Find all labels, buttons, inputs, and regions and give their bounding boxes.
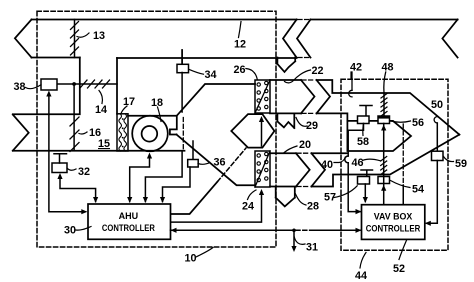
svg-text:44: 44 xyxy=(355,270,367,282)
svg-text:38: 38 xyxy=(14,81,26,93)
svg-text:48: 48 xyxy=(382,62,394,74)
svg-text:12: 12 xyxy=(234,39,246,51)
svg-text:13: 13 xyxy=(93,30,105,42)
svg-text:42: 42 xyxy=(350,62,362,74)
svg-text:CONTROLLER: CONTROLLER xyxy=(102,223,155,233)
svg-text:20: 20 xyxy=(299,139,311,151)
svg-text:26: 26 xyxy=(234,64,246,76)
svg-text:32: 32 xyxy=(78,166,90,178)
svg-text:54: 54 xyxy=(412,184,424,196)
svg-text:24: 24 xyxy=(242,201,254,213)
svg-text:52: 52 xyxy=(393,263,405,275)
svg-text:28: 28 xyxy=(307,201,319,213)
svg-text:29: 29 xyxy=(306,120,318,132)
svg-text:18: 18 xyxy=(151,97,163,109)
svg-text:31: 31 xyxy=(306,242,318,254)
svg-text:10: 10 xyxy=(185,253,197,265)
svg-text:22: 22 xyxy=(312,65,324,77)
svg-text:17: 17 xyxy=(123,96,135,108)
svg-text:57: 57 xyxy=(324,192,336,204)
svg-text:VAV BOX: VAV BOX xyxy=(374,212,413,222)
svg-text:46: 46 xyxy=(352,157,364,169)
svg-text:15: 15 xyxy=(98,138,110,150)
svg-text:34: 34 xyxy=(205,69,217,81)
svg-text:50: 50 xyxy=(431,99,443,111)
svg-text:30: 30 xyxy=(64,225,76,237)
svg-text:CONTROLLER: CONTROLLER xyxy=(366,223,421,233)
svg-text:36: 36 xyxy=(214,157,226,169)
svg-text:AHU: AHU xyxy=(119,211,139,221)
svg-text:56: 56 xyxy=(412,117,424,129)
svg-text:59: 59 xyxy=(455,158,467,170)
svg-text:58: 58 xyxy=(357,136,369,148)
svg-text:14: 14 xyxy=(95,104,107,116)
svg-text:40: 40 xyxy=(321,159,333,171)
